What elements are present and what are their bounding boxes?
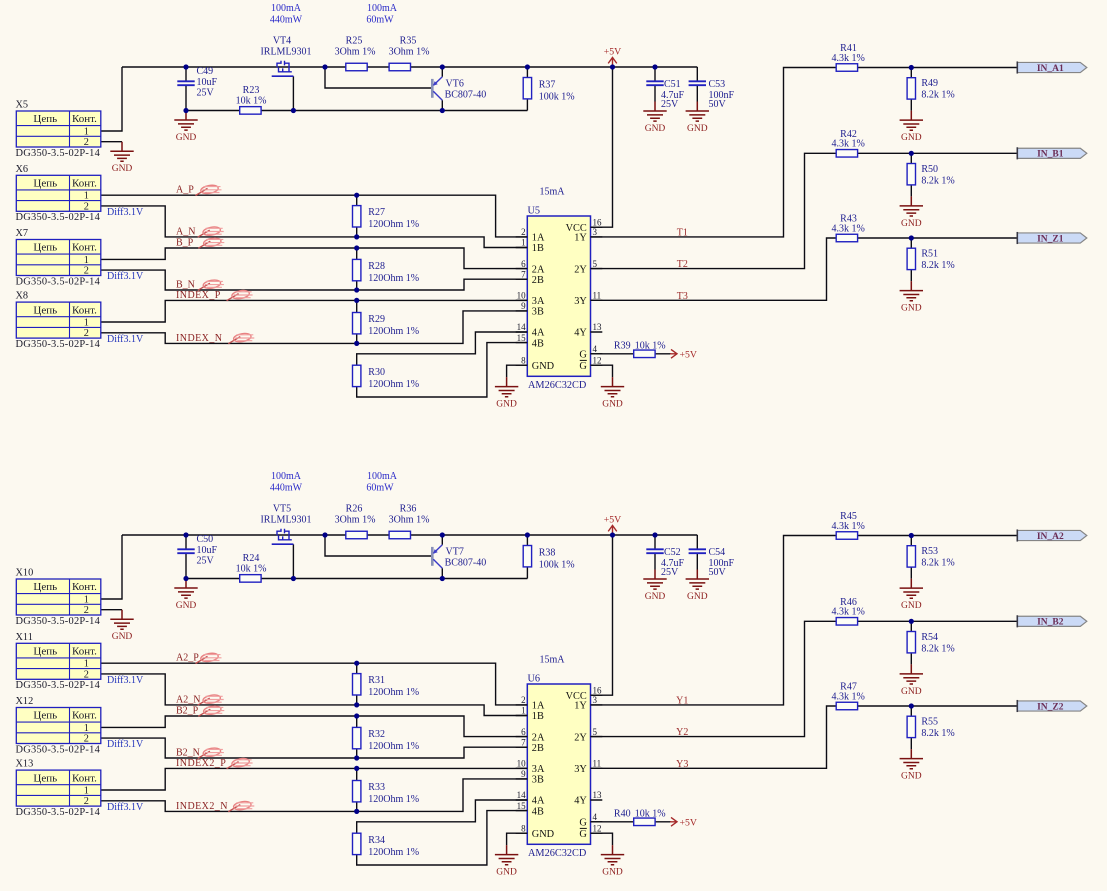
svg-text:Diff3.1V: Diff3.1V	[107, 802, 144, 813]
resistor R54 body	[907, 632, 915, 653]
junction divider Z	[909, 235, 914, 240]
svg-text:DG350-3.5-02P-14: DG350-3.5-02P-14	[16, 616, 101, 627]
svg-text:4A: 4A	[532, 796, 545, 807]
svg-text:T2: T2	[677, 259, 688, 270]
svg-text:DG350-3.5-02P-14: DG350-3.5-02P-14	[16, 212, 101, 223]
svg-text:B2_P: B2_P	[176, 706, 199, 717]
svg-text:R31: R31	[368, 675, 385, 686]
svg-text:IN_A1: IN_A1	[1037, 64, 1064, 74]
svg-text:7: 7	[521, 737, 526, 747]
wire net B2_N	[101, 738, 528, 758]
svg-text:R38: R38	[539, 548, 556, 559]
port IN_Z2	[1017, 700, 1087, 712]
svg-text:INDEX2_N: INDEX2_N	[176, 801, 228, 812]
svg-text:2: 2	[84, 796, 89, 807]
ground U6 pin8	[495, 845, 518, 878]
junction divider Z	[909, 703, 914, 708]
junction P term top	[354, 661, 359, 666]
svg-text:U6: U6	[528, 674, 541, 685]
svg-text:IN_Z1: IN_Z1	[1037, 234, 1064, 244]
svg-text:1A: 1A	[532, 233, 545, 244]
resistor R53 body	[907, 546, 915, 567]
resistor R26 body	[346, 531, 367, 539]
svg-text:8.2k 1%: 8.2k 1%	[921, 90, 954, 101]
svg-text:Цепь: Цепь	[33, 113, 57, 125]
capacitor C49	[177, 81, 194, 85]
resistor R55 body	[907, 716, 915, 737]
svg-text:12: 12	[593, 355, 602, 365]
svg-text:15mA: 15mA	[540, 186, 566, 197]
wire net B_N	[101, 270, 528, 290]
svg-text:8.2k 1%: 8.2k 1%	[921, 644, 954, 655]
wire VT7 base	[325, 535, 432, 556]
svg-text:4A: 4A	[532, 328, 545, 339]
svg-text:2B: 2B	[532, 275, 544, 286]
svg-text:Цепь: Цепь	[33, 772, 57, 784]
directive differential pair B2_P	[198, 705, 224, 716]
ground under R54	[900, 664, 923, 697]
svg-text:R30: R30	[368, 367, 385, 378]
svg-text:3Ohm 1%: 3Ohm 1%	[335, 514, 376, 525]
svg-text:U5: U5	[528, 206, 541, 217]
directive differential pair A2_N	[198, 694, 224, 705]
svg-text:INDEX_N: INDEX_N	[176, 333, 222, 344]
ground under C50	[174, 579, 197, 612]
svg-text:GND: GND	[602, 868, 623, 878]
svg-text:7: 7	[521, 269, 526, 279]
directive differential pair A_N	[198, 226, 224, 237]
junction lower/gate	[291, 576, 296, 581]
svg-text:DG350-3.5-02P-14: DG350-3.5-02P-14	[16, 148, 101, 159]
svg-text:100mA: 100mA	[271, 3, 302, 14]
svg-text:Y1: Y1	[676, 695, 688, 706]
wire pin15 4B to R34	[357, 811, 528, 865]
svg-text:1: 1	[84, 126, 89, 137]
ground under C52	[643, 570, 666, 603]
svg-text:2A: 2A	[532, 264, 545, 275]
junction P2 term top	[354, 245, 359, 250]
ground under R50	[900, 196, 923, 229]
svg-text:120Ohm 1%: 120Ohm 1%	[368, 326, 419, 337]
wire C49 stems	[185, 67, 187, 111]
svg-text:C51: C51	[664, 79, 681, 90]
svg-text:Конт.: Конт.	[72, 113, 97, 125]
directive differential pair B2_N	[198, 747, 224, 758]
wire R54 stems	[910, 621, 912, 664]
svg-text:10: 10	[517, 759, 527, 769]
svg-text:IRLML9301: IRLML9301	[260, 514, 311, 525]
ground U5 pin12	[601, 377, 624, 410]
svg-text:2: 2	[84, 266, 89, 277]
wire R51 stems	[910, 238, 912, 281]
wire main +rail	[122, 534, 697, 536]
svg-text:VT4: VT4	[273, 36, 291, 47]
wire VCC to +5V	[591, 67, 613, 227]
junction rail/base	[322, 532, 327, 537]
svg-text:AM26C32CD: AM26C32CD	[528, 848, 587, 859]
svg-text:2B: 2B	[532, 743, 544, 754]
svg-text:GND: GND	[496, 400, 517, 410]
svg-text:120Ohm 1%: 120Ohm 1%	[368, 219, 419, 230]
svg-text:15: 15	[517, 333, 527, 343]
ground under C51	[643, 102, 666, 135]
wire pin8 to ground	[507, 833, 528, 845]
svg-text:6: 6	[521, 727, 526, 737]
svg-text:2: 2	[84, 669, 89, 680]
svg-text:10: 10	[517, 291, 527, 301]
svg-text:2A: 2A	[532, 732, 545, 743]
svg-text:8.2k 1%: 8.2k 1%	[921, 260, 954, 271]
wire C50 stems	[185, 535, 187, 579]
ground under C53	[686, 102, 709, 135]
resistor R27 body	[353, 206, 361, 227]
svg-text:GND: GND	[901, 687, 922, 697]
svg-text:25V: 25V	[661, 567, 679, 578]
connector X13	[16, 759, 101, 818]
wire net INDEX_N	[101, 311, 528, 344]
svg-text:C50: C50	[197, 534, 214, 545]
resistor R29 body	[353, 313, 361, 334]
svg-text:DG350-3.5-02P-14: DG350-3.5-02P-14	[16, 744, 101, 755]
resistor R49 body	[907, 78, 915, 99]
wire net Y2	[591, 621, 1018, 736]
svg-text:2: 2	[84, 201, 89, 212]
svg-text:DG350-3.5-02P-14: DG350-3.5-02P-14	[16, 807, 101, 818]
svg-text:8.2k 1%: 8.2k 1%	[921, 558, 954, 569]
svg-text:2: 2	[84, 605, 89, 616]
resistor R39 body	[634, 350, 655, 358]
ground under X10	[110, 610, 133, 643]
svg-text:15mA: 15mA	[540, 654, 566, 665]
svg-text:1Y: 1Y	[574, 701, 587, 712]
wire X5 pin2 to ground	[101, 141, 122, 143]
svg-text:120Ohm 1%: 120Ohm 1%	[368, 847, 419, 858]
svg-text:10uF: 10uF	[197, 77, 218, 88]
junction rail/C	[183, 532, 188, 537]
wire pin15 4B to R30	[357, 343, 528, 397]
wire net A2_P	[101, 663, 528, 705]
svg-text:X13: X13	[16, 759, 34, 770]
svg-text:C54: C54	[709, 547, 726, 558]
svg-text:+5V: +5V	[604, 47, 622, 58]
wire net INDEX_P	[101, 300, 528, 322]
svg-text:C52: C52	[664, 547, 681, 558]
svg-text:IRLML9301: IRLML9301	[260, 46, 311, 57]
junction N term bot	[354, 702, 359, 707]
resistor R36 body	[389, 531, 410, 539]
ground U6 pin12	[601, 845, 624, 878]
svg-text:1: 1	[84, 659, 89, 670]
svg-text:2: 2	[521, 695, 526, 705]
ground under R53	[900, 579, 923, 612]
svg-text:X5: X5	[16, 100, 29, 111]
svg-text:C53: C53	[709, 79, 726, 90]
svg-text:10k 1%: 10k 1%	[635, 340, 666, 351]
pin stubs U5	[516, 227, 603, 365]
svg-text:B2_N: B2_N	[176, 748, 200, 759]
resistor R34 body	[353, 833, 361, 854]
svg-text:X7: X7	[16, 228, 29, 239]
svg-text:Конт.: Конт.	[72, 646, 97, 658]
svg-text:1A: 1A	[532, 701, 545, 712]
ground U5 pin8	[495, 377, 518, 410]
svg-text:GND: GND	[687, 592, 708, 602]
svg-text:GND: GND	[496, 868, 517, 878]
svg-text:AM26C32CD: AM26C32CD	[528, 380, 587, 391]
resistor R35 body	[389, 63, 410, 71]
svg-text:R33: R33	[368, 782, 385, 793]
svg-text:10uF: 10uF	[197, 545, 218, 556]
capacitor C54	[689, 549, 706, 553]
junction P3 term top	[354, 298, 359, 303]
svg-text:8.2k 1%: 8.2k 1%	[921, 728, 954, 739]
svg-text:2: 2	[84, 137, 89, 148]
svg-text:BC807-40: BC807-40	[445, 558, 487, 569]
svg-text:120Ohm 1%: 120Ohm 1%	[368, 794, 419, 805]
ground under X5	[110, 142, 133, 175]
svg-text:25V: 25V	[197, 556, 215, 567]
wire R38 stems	[526, 535, 528, 579]
directive differential pair INDEX_N	[228, 332, 254, 343]
directive differential pair INDEX2_N	[228, 800, 254, 811]
wire net T1	[591, 68, 1018, 237]
svg-text:IN_B2: IN_B2	[1037, 618, 1064, 628]
power +5V after R39	[670, 349, 697, 360]
overline for pin 12 G-bar	[580, 827, 587, 829]
junction lower/gate	[291, 108, 296, 113]
directive differential pair B_P	[198, 237, 224, 248]
junction P3 term top	[354, 766, 359, 771]
svg-text:GND: GND	[901, 133, 922, 143]
svg-text:Конт.: Конт.	[72, 242, 97, 254]
svg-text:G: G	[579, 350, 587, 361]
svg-text:Конт.: Конт.	[72, 772, 97, 784]
svg-text:3Ohm 1%: 3Ohm 1%	[335, 46, 376, 57]
resistor R32 body	[353, 727, 361, 748]
svg-text:3B: 3B	[532, 307, 544, 318]
svg-text:4Y: 4Y	[574, 796, 587, 807]
directive differential pair A_P	[196, 184, 222, 195]
svg-text:DG350-3.5-02P-14: DG350-3.5-02P-14	[16, 339, 101, 350]
wire lower rail	[186, 110, 527, 112]
op-amp / IC U6 AM26C32CD	[516, 674, 603, 860]
connector X8	[16, 291, 101, 350]
resistor R51 body	[907, 248, 915, 269]
svg-text:Diff3.1V: Diff3.1V	[107, 334, 144, 345]
junction rail/C2	[652, 532, 657, 537]
svg-text:R27: R27	[368, 207, 385, 218]
svg-text:60mW: 60mW	[366, 15, 394, 26]
wire R49 stems	[910, 68, 912, 111]
svg-text:R32: R32	[368, 729, 385, 740]
junction N2 term bot	[354, 287, 359, 292]
svg-text:A_P: A_P	[176, 185, 194, 196]
svg-text:R36: R36	[400, 504, 417, 515]
svg-text:Цепь: Цепь	[33, 304, 57, 316]
transistor VT5 (IRLML9301)	[260, 504, 311, 545]
port IN_A1	[1017, 61, 1087, 73]
svg-text:T1: T1	[677, 227, 688, 238]
svg-text:A2_N: A2_N	[176, 694, 200, 705]
wire pin4 G to R39	[591, 353, 672, 355]
svg-text:GND: GND	[602, 400, 623, 410]
directive differential pair INDEX2_P	[227, 757, 253, 768]
wire R33 stems	[356, 768, 358, 811]
svg-text:G: G	[579, 829, 587, 840]
capacitor C51	[646, 81, 663, 85]
junction rail/+5V	[610, 64, 615, 69]
junction rail/R	[525, 532, 530, 537]
svg-text:4.3k 1%: 4.3k 1%	[832, 607, 865, 618]
svg-text:R54: R54	[921, 632, 938, 643]
wire R27 stems	[356, 195, 358, 237]
wire net A_N	[101, 206, 528, 248]
junction rail/base	[322, 64, 327, 69]
svg-text:Diff3.1V: Diff3.1V	[107, 675, 144, 686]
svg-text:13: 13	[593, 322, 603, 332]
wire pin14 4A to R34	[357, 800, 528, 833]
wire main +rail	[122, 66, 697, 68]
svg-text:120Ohm 1%: 120Ohm 1%	[368, 687, 419, 698]
svg-text:R23: R23	[243, 85, 260, 96]
svg-text:1: 1	[521, 706, 526, 716]
resistor R50 body	[907, 164, 915, 185]
connector X7	[16, 228, 101, 287]
wire pin4 G to R40	[591, 821, 672, 823]
svg-text:5: 5	[593, 727, 598, 737]
svg-text:Diff3.1V: Diff3.1V	[107, 739, 144, 750]
svg-text:16: 16	[593, 217, 603, 227]
junction N3 term bot	[354, 809, 359, 814]
svg-text:8: 8	[521, 823, 526, 833]
junction N term bot	[354, 234, 359, 239]
wire net Y1	[591, 536, 1018, 705]
svg-text:8.2k 1%: 8.2k 1%	[921, 176, 954, 187]
svg-text:VT5: VT5	[273, 504, 291, 515]
svg-text:Цепь: Цепь	[33, 581, 57, 593]
svg-text:X11: X11	[16, 632, 33, 643]
svg-text:14: 14	[517, 790, 527, 800]
wire net B_P	[101, 248, 528, 269]
svg-text:R29: R29	[368, 314, 385, 325]
svg-text:13: 13	[593, 790, 603, 800]
resistor R43 body	[836, 234, 857, 242]
svg-text:R53: R53	[921, 546, 938, 557]
junction rail/C2	[652, 64, 657, 69]
svg-text:440mW: 440mW	[270, 15, 303, 26]
svg-text:10k 1%: 10k 1%	[236, 95, 267, 106]
svg-text:Цепь: Цепь	[33, 646, 57, 658]
wire VT4 gate	[292, 76, 294, 110]
ground under C49	[174, 111, 197, 144]
svg-text:A2_P: A2_P	[176, 653, 199, 664]
ground under R49	[900, 111, 923, 144]
wire pin8 to ground	[507, 365, 528, 377]
junction N2 term bot	[354, 755, 359, 760]
svg-text:100mA: 100mA	[367, 3, 398, 14]
svg-text:GND: GND	[645, 592, 666, 602]
svg-text:Y3: Y3	[676, 759, 688, 770]
svg-text:B_P: B_P	[176, 238, 194, 249]
svg-text:1: 1	[84, 723, 89, 734]
svg-text:GND: GND	[112, 164, 133, 174]
svg-text:VT6: VT6	[446, 78, 464, 89]
svg-text:Y2: Y2	[676, 727, 688, 738]
power +5V top rail	[604, 515, 622, 535]
junction rail/+5V	[610, 532, 615, 537]
svg-text:VT7: VT7	[446, 546, 464, 557]
svg-text:11: 11	[593, 291, 602, 301]
junction rail/emitter	[440, 64, 445, 69]
svg-text:12: 12	[593, 823, 602, 833]
svg-text:+5V: +5V	[604, 515, 622, 526]
svg-text:3B: 3B	[532, 775, 544, 786]
svg-text:3A: 3A	[532, 764, 545, 775]
svg-text:2: 2	[521, 227, 526, 237]
svg-text:X6: X6	[16, 164, 29, 175]
junction rail/R	[525, 64, 530, 69]
svg-text:4.3k 1%: 4.3k 1%	[832, 139, 865, 150]
svg-text:3Ohm 1%: 3Ohm 1%	[389, 46, 430, 57]
svg-text:Цепь: Цепь	[33, 710, 57, 722]
resistor R33 body	[353, 781, 361, 802]
svg-text:100k 1%: 100k 1%	[539, 559, 575, 570]
pin stubs U6	[516, 695, 603, 833]
wire lower rail	[186, 578, 527, 580]
transistor VT7 (BC807-40)	[432, 545, 486, 569]
wire net INDEX2_P	[101, 768, 528, 790]
svg-text:50V: 50V	[709, 99, 727, 110]
power +5V after R40	[670, 817, 697, 828]
wire pin14 4A to R30	[357, 332, 528, 365]
svg-text:440mW: 440mW	[270, 483, 303, 494]
wire net INDEX2_N	[101, 779, 528, 812]
wire VT7 emitter/collector stubs	[441, 535, 443, 579]
wire R55 stems	[910, 706, 912, 749]
svg-text:1: 1	[84, 786, 89, 797]
wire net T3	[591, 238, 1018, 300]
svg-text:4.3k 1%: 4.3k 1%	[832, 521, 865, 532]
transistor VT4 (IRLML9301)	[260, 36, 311, 77]
svg-text:4: 4	[593, 344, 598, 354]
resistor R24 body	[240, 575, 261, 583]
svg-text:+5V: +5V	[680, 349, 698, 360]
svg-text:100mA: 100mA	[367, 471, 398, 482]
svg-text:120Ohm 1%: 120Ohm 1%	[368, 741, 419, 752]
svg-text:DG350-3.5-02P-14: DG350-3.5-02P-14	[16, 680, 101, 691]
resistor R30 body	[353, 365, 361, 386]
capacitor C53	[689, 81, 706, 85]
svg-text:GND: GND	[901, 219, 922, 229]
wire R53 stems	[910, 536, 912, 579]
svg-text:3: 3	[593, 227, 598, 237]
svg-text:GND: GND	[176, 133, 197, 143]
svg-text:4.3k 1%: 4.3k 1%	[832, 691, 865, 702]
svg-text:GND: GND	[176, 601, 197, 611]
junction lower/collector	[440, 576, 445, 581]
directive differential pair B_N	[198, 279, 224, 290]
svg-text:R24: R24	[243, 553, 260, 564]
wire R31 stems	[356, 663, 358, 705]
svg-text:25V: 25V	[661, 99, 679, 110]
resistor R38 body	[523, 546, 531, 567]
wire C53 stems	[696, 67, 698, 102]
directive differential pair INDEX_P	[227, 289, 253, 300]
wire X5 pin1 to rail	[101, 67, 122, 131]
wire VT6 emitter/collector stubs	[441, 67, 443, 111]
capacitor C52	[646, 549, 663, 553]
connector X6	[16, 164, 101, 223]
